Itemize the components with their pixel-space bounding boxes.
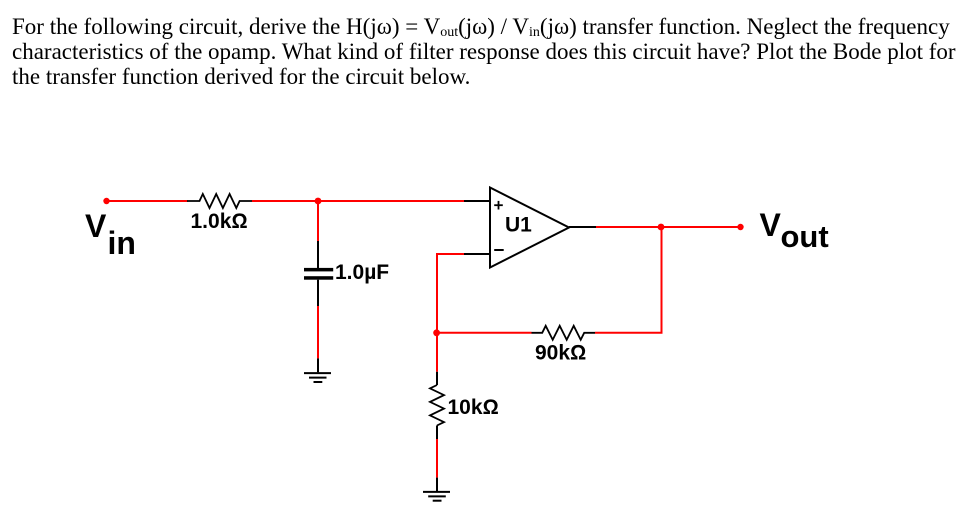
wire node A to op-amp (318, 200, 464, 202)
svg-text:10kΩ: 10kΩ (448, 396, 499, 419)
svg-text:in: in (108, 225, 136, 261)
lead R3 top (436, 372, 438, 385)
svg-text:U1: U1 (505, 214, 532, 237)
ground symbol left (304, 373, 331, 382)
lead ground right (436, 478, 438, 491)
wire node A down to capacitor (317, 201, 319, 241)
lead capacitor top (317, 241, 319, 268)
problem statement (12, 14, 962, 89)
svg-text:90kΩ: 90kΩ (535, 341, 586, 364)
capacitor C1 1.0uF (304, 268, 333, 280)
svg-text:out: out (781, 219, 829, 254)
lead R3 bottom (436, 426, 438, 440)
resistor R3 10k (430, 385, 444, 426)
wire R3 to ground (436, 439, 438, 478)
wire R1 to node A (252, 200, 318, 202)
ground symbol right (423, 492, 450, 501)
Vout label (760, 207, 829, 254)
lead op-amp noninverting input (464, 200, 490, 202)
node Vout terminal dot (737, 224, 743, 230)
node C output junction dot (658, 224, 665, 231)
wire Vin to R1 (107, 200, 188, 202)
resistor R2 90k (532, 326, 596, 340)
wire capacitor to ground (317, 306, 319, 358)
wire node B to R2 (437, 332, 532, 334)
wire output to Vout (596, 226, 741, 228)
lead op-amp inverting input (464, 253, 490, 255)
lead capacitor bottom (317, 280, 319, 306)
node B feedback junction dot (433, 329, 440, 336)
node A junction dot (315, 198, 322, 205)
wire node B down to R3 (436, 333, 438, 372)
wire inverting input feedback (437, 254, 464, 333)
svg-text:V: V (760, 207, 782, 243)
svg-text:1.0µF: 1.0µF (335, 261, 389, 284)
resistor R1 1.0k (187, 194, 252, 208)
svg-text:1.0kΩ: 1.0kΩ (191, 210, 248, 233)
op-amp U1 (490, 188, 569, 268)
lead op-amp output (569, 226, 596, 228)
lead ground left (317, 358, 319, 372)
Vin label (85, 208, 136, 261)
svg-text:V: V (85, 208, 107, 244)
node Vin input terminal dot (103, 198, 109, 204)
wire R2 to output node (595, 227, 662, 333)
